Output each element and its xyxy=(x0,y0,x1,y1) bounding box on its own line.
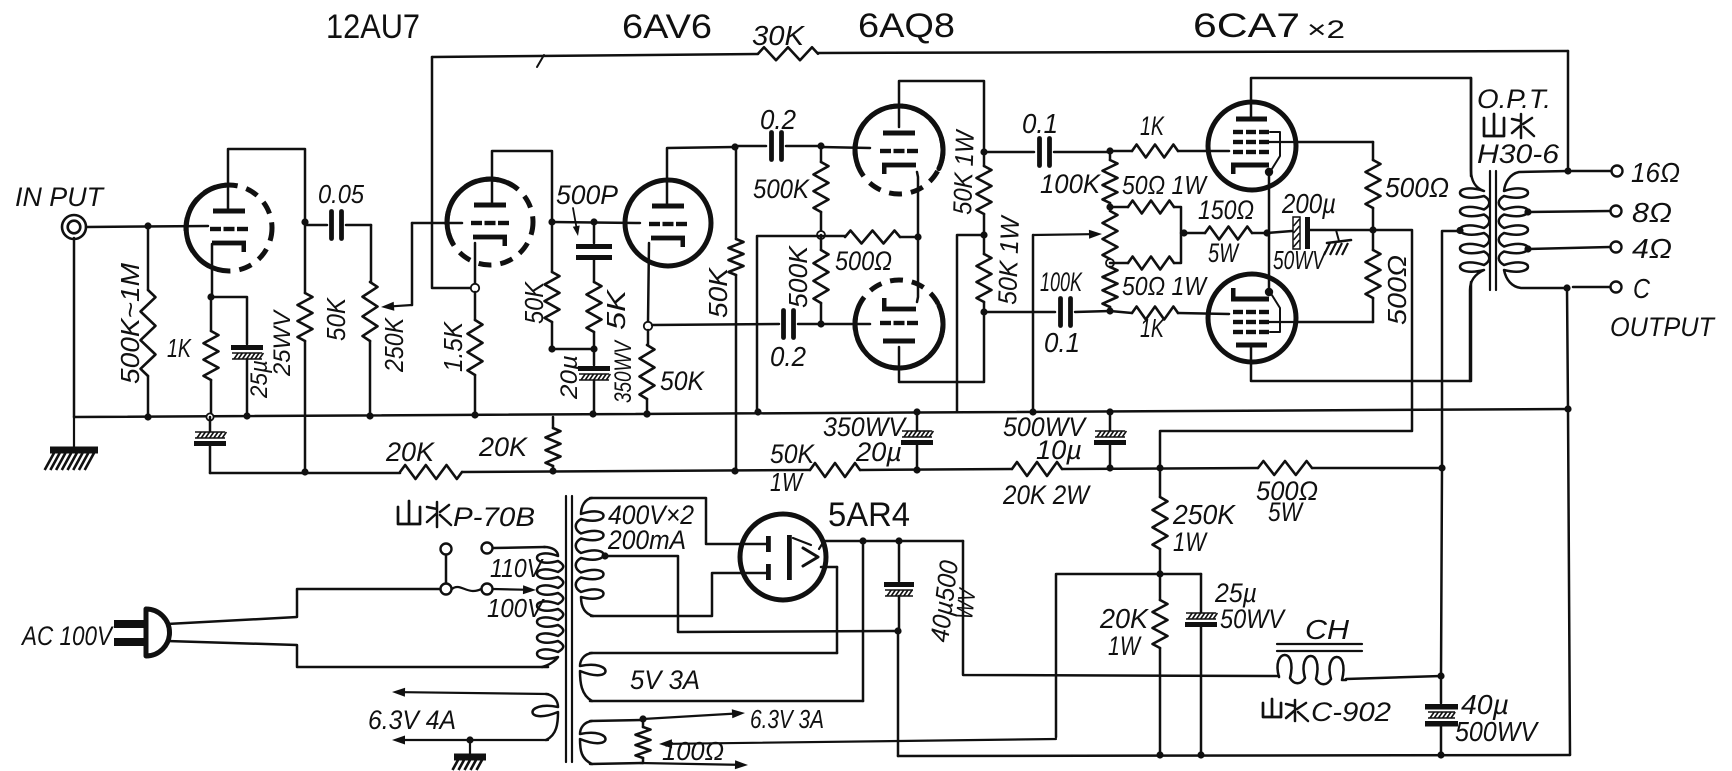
resistor 1.5K xyxy=(468,292,483,415)
label 5V3A xyxy=(630,665,700,695)
resistor 150Ohm 5W xyxy=(1184,227,1267,240)
label 0.05 xyxy=(318,179,364,209)
label 50WV xyxy=(1273,245,1327,275)
PT HT coil xyxy=(576,498,604,616)
svg-text:50WV: 50WV xyxy=(1220,604,1287,634)
svg-text:12AU7: 12AU7 xyxy=(326,8,420,46)
wire V1b cathode xyxy=(474,243,477,284)
svg-text:1W: 1W xyxy=(1173,527,1208,557)
label 350WV xyxy=(610,339,637,403)
resistor 50K cathode V2 xyxy=(640,330,655,413)
label 400Vx2 xyxy=(608,500,694,530)
junction V4 plate node xyxy=(980,308,987,315)
label 500K~1M xyxy=(115,263,145,384)
svg-text:20K: 20K xyxy=(1099,603,1149,634)
label 30K xyxy=(752,20,805,51)
svg-text:CH: CH xyxy=(1305,614,1350,645)
wire V3 plate xyxy=(899,81,984,152)
resistor 500K~1M xyxy=(141,226,156,417)
junction rail 50Kdrop xyxy=(731,467,738,474)
wire 6.3V3A arrow xyxy=(643,709,745,719)
junction V1a plate node xyxy=(301,218,308,225)
wire 5AR4 fil2 xyxy=(821,567,837,653)
resistor 50Ohm 1W lower xyxy=(1110,233,1181,270)
svg-text:100K: 100K xyxy=(1040,267,1083,297)
label H30-6 xyxy=(1477,139,1560,169)
label 500K upper xyxy=(753,174,810,204)
resistor 100K upper xyxy=(1103,151,1118,207)
resistor 100Ohm xyxy=(636,719,651,763)
label 5K xyxy=(601,288,631,330)
svg-text:350WV: 350WV xyxy=(610,339,637,403)
label 0.2 lower xyxy=(770,341,806,372)
wire 25u to bus xyxy=(246,359,249,416)
label 10u psu xyxy=(1036,435,1082,465)
svg-text:500K~1M: 500K~1M xyxy=(115,263,145,384)
ground main xyxy=(45,417,98,470)
label 40u500WV xyxy=(924,558,982,644)
label 0.1 upper xyxy=(1022,108,1058,139)
label CH xyxy=(1305,614,1350,645)
label 500P xyxy=(556,180,618,236)
label 200mA xyxy=(607,525,686,555)
label 50K 1W rail xyxy=(770,439,815,497)
tube V3 6AQ8 upper xyxy=(855,106,943,194)
svg-text:6.3V 4A: 6.3V 4A xyxy=(368,705,456,735)
wire V1a cathode xyxy=(211,244,214,297)
wire node to bus drop xyxy=(757,236,821,411)
junction rail 1110 xyxy=(1106,464,1113,471)
capacitor 20u 350WV xyxy=(578,349,610,413)
label 50K1W lower xyxy=(992,214,1025,305)
resistor 1K xyxy=(204,297,219,413)
svg-text:20K 2W: 20K 2W xyxy=(1002,480,1091,510)
wire HT top xyxy=(590,498,766,544)
resistor 50K 1W lower xyxy=(977,235,992,312)
wire AC upper xyxy=(167,589,440,624)
svg-text:100V: 100V xyxy=(487,593,545,623)
svg-text:10µ: 10µ xyxy=(1036,435,1082,465)
tube V1a 12AU7 xyxy=(186,185,272,271)
switch terminal 110V a xyxy=(441,544,452,555)
wire 50K-5K bottoms xyxy=(552,348,594,351)
label 500WV psu xyxy=(1003,412,1088,442)
potentiometer 250K xyxy=(363,282,378,416)
resistor 20K vert xyxy=(546,417,561,471)
wire B+ rail xyxy=(210,461,1442,479)
junction rail 305 xyxy=(301,468,308,475)
junction chain bottom xyxy=(1106,307,1113,314)
label 500Ohm5W xyxy=(1256,476,1318,527)
label 5W xyxy=(1208,238,1240,268)
svg-text:200µ: 200µ xyxy=(1281,188,1336,219)
capacitor 0.2 upper xyxy=(735,133,821,160)
junction C tap xyxy=(1563,284,1570,291)
svg-text:16Ω: 16Ω xyxy=(1631,157,1680,188)
svg-text:250K: 250K xyxy=(379,317,409,373)
junction btm 40u xyxy=(1437,751,1444,758)
junction bus 1.5K xyxy=(471,411,478,418)
svg-text:P-70B: P-70B xyxy=(453,502,535,532)
svg-text:C: C xyxy=(1633,273,1651,304)
svg-text:5W: 5W xyxy=(1208,238,1240,268)
resistor 1K lower xyxy=(1110,307,1229,320)
OPT primary CT xyxy=(1456,227,1463,234)
label OPT sansui kanji xyxy=(1484,114,1534,138)
label 110V xyxy=(490,553,544,583)
svg-text:×2: ×2 xyxy=(1307,16,1345,44)
ground at 200u xyxy=(1324,230,1351,255)
wire V5 cathode xyxy=(1268,172,1271,233)
capacitor 0.1 upper xyxy=(984,139,1110,166)
wire V2 plate xyxy=(667,147,735,206)
svg-text:1W: 1W xyxy=(1108,631,1142,661)
ground 6.3V4A xyxy=(453,740,487,770)
svg-text:500Ω: 500Ω xyxy=(1385,172,1449,203)
resistor 100K lower xyxy=(1103,267,1118,311)
wire V6 plate xyxy=(1251,282,1471,381)
wire V5 plate xyxy=(1251,78,1471,176)
resistor chain mid xyxy=(1103,211,1118,263)
wire V6 screen xyxy=(1296,298,1373,322)
junction 16ohm NFB xyxy=(1564,167,1571,174)
wire 5AR4 B+ xyxy=(819,541,963,549)
svg-text:250K: 250K xyxy=(1172,499,1236,530)
svg-text:1K: 1K xyxy=(167,333,192,363)
wire divider to 25u xyxy=(1160,574,1201,612)
resistor 50K plate load V1b xyxy=(545,222,560,349)
junction btm 20K1W xyxy=(1156,751,1163,758)
svg-text:6.3V 3A: 6.3V 3A xyxy=(750,704,824,734)
junction chain top xyxy=(1106,147,1113,154)
wire V3 cathode xyxy=(917,172,918,237)
junction bridge xyxy=(1180,229,1187,236)
wire grid V1b xyxy=(412,222,462,225)
choke CH core xyxy=(1277,644,1362,651)
label 350WV psu xyxy=(823,412,908,442)
junction bus 25u xyxy=(243,412,250,419)
label 50K1W upper xyxy=(947,128,980,215)
svg-text:500P: 500P xyxy=(556,180,618,210)
label 4ohm xyxy=(1632,233,1672,264)
junction 5K bottom xyxy=(590,345,597,352)
label 1K upper xyxy=(1140,111,1165,141)
svg-text:150Ω: 150Ω xyxy=(1198,195,1254,225)
svg-text:0.1: 0.1 xyxy=(1022,108,1058,139)
resistor 500Ohm screen lower xyxy=(1366,230,1381,298)
capacitor 500P xyxy=(576,222,612,282)
label 200u xyxy=(1281,188,1336,219)
node V1b cathode xyxy=(471,284,479,292)
label 16ohm xyxy=(1631,157,1680,188)
label 8ohm xyxy=(1632,197,1672,228)
svg-text:20µ: 20µ xyxy=(855,437,902,467)
label 20K2W xyxy=(1002,480,1091,510)
input jack J1 xyxy=(62,215,86,239)
label 50Ohm1W upper xyxy=(1122,170,1208,200)
label OUTPUT xyxy=(1610,312,1716,342)
resistor 20K 1W xyxy=(1153,574,1168,755)
tube V1b 12AU7 xyxy=(447,179,533,265)
wire 6.3V4A lower arrow xyxy=(392,736,548,745)
switch terminal 100V b xyxy=(482,584,493,595)
junction choke out xyxy=(1437,672,1444,679)
label 6.3V3A xyxy=(750,704,824,734)
label C xyxy=(1633,273,1651,304)
junction 500P node xyxy=(590,218,597,225)
junction 6CA7 cathodes xyxy=(1263,229,1270,236)
svg-text:IN PUT: IN PUT xyxy=(15,182,105,212)
junction lower 0.2 node xyxy=(817,320,824,327)
svg-text:25µ: 25µ xyxy=(246,360,273,399)
junction drop-bus xyxy=(754,408,761,415)
svg-text:5V 3A: 5V 3A xyxy=(630,665,700,695)
wire HT CT xyxy=(604,556,898,632)
label 50K V1a xyxy=(321,296,351,341)
svg-text:1W: 1W xyxy=(770,467,804,497)
capacitor 0.05 xyxy=(305,212,371,239)
junction rail 250K xyxy=(1156,464,1163,471)
svg-text:50Ω 1W: 50Ω 1W xyxy=(1122,170,1208,200)
capacitor 20u 350WV psu xyxy=(901,412,933,470)
label 50K V2k xyxy=(660,366,705,396)
label 100K lower xyxy=(1040,267,1083,297)
wire V5 screen xyxy=(1296,142,1373,160)
svg-text:500WV: 500WV xyxy=(1455,716,1539,747)
junction chain n2 xyxy=(1106,203,1113,210)
label 5AR4 xyxy=(828,496,910,534)
junction rail 20K xyxy=(549,467,556,474)
wire 16ohm xyxy=(1572,170,1611,173)
terminal 4ohm xyxy=(1611,242,1622,253)
switch link xyxy=(445,555,448,583)
resistor 1K upper xyxy=(1110,145,1229,158)
wire mid to bus xyxy=(957,235,984,411)
label 1.5K xyxy=(438,320,468,372)
label 25u xyxy=(246,360,273,399)
junction 100ohm top xyxy=(639,715,646,722)
wire C ground drop xyxy=(1567,288,1570,755)
svg-text:50WV: 50WV xyxy=(1273,245,1327,275)
junction bus 20u xyxy=(589,410,596,417)
label C-902 kanji xyxy=(1263,699,1308,721)
label P-70B xyxy=(453,502,535,532)
capacitor 0.2 lower xyxy=(784,311,822,338)
junction bus 500K1M xyxy=(144,413,151,420)
wire cathode to cap xyxy=(211,297,247,344)
resistor 500K lower xyxy=(814,235,829,324)
tube V5 6CA7 upper xyxy=(1208,102,1296,190)
label 500Ohm cath xyxy=(835,246,892,276)
wire V2 cathode xyxy=(648,243,649,322)
label 100K upper xyxy=(1040,169,1101,199)
capacitor 25u 50WV xyxy=(1185,613,1217,755)
svg-text:C-902: C-902 xyxy=(1311,697,1391,727)
junction rail 917 xyxy=(913,466,920,473)
wire 0.05 to pot xyxy=(370,225,373,282)
junction CT-rail xyxy=(1438,464,1445,471)
capacitor 40u 500WV psu xyxy=(884,541,914,631)
wire 110V to coil xyxy=(493,547,545,548)
wire 100V tap xyxy=(493,585,536,594)
label AC100V xyxy=(20,621,114,651)
junction V2 plate node xyxy=(731,143,738,150)
junction 0.2-500K xyxy=(817,142,824,149)
junction bus 250K xyxy=(366,412,373,419)
wire C xyxy=(1573,286,1610,289)
tube V6 6CA7 lower xyxy=(1208,274,1296,362)
junction HT CT xyxy=(601,552,608,559)
node screens xyxy=(1369,226,1376,233)
junction V3 plate node xyxy=(980,148,987,155)
svg-text:500Ω: 500Ω xyxy=(835,246,892,276)
svg-text:H30-6: H30-6 xyxy=(1477,139,1560,169)
wire input to grid xyxy=(86,226,208,227)
junction 50K V2k bottom xyxy=(643,410,650,417)
label 150Ohm xyxy=(1198,195,1254,225)
label 6AV6 xyxy=(622,8,712,46)
svg-text:1K: 1K xyxy=(1140,111,1165,141)
svg-text:200mA: 200mA xyxy=(607,525,686,555)
svg-text:50K 1W: 50K 1W xyxy=(992,214,1025,305)
junction 50K1W mid xyxy=(980,231,987,238)
label 20K h xyxy=(385,437,435,467)
svg-text:50K: 50K xyxy=(660,366,705,396)
tube V7 5AR4 xyxy=(740,514,826,600)
svg-text:100Ω: 100Ω xyxy=(662,736,724,766)
svg-text:50K: 50K xyxy=(519,280,549,324)
label 40u out xyxy=(1461,689,1509,720)
resistor 50K drop xyxy=(729,147,744,470)
wire HT bottom xyxy=(591,573,766,616)
svg-text:6AQ8: 6AQ8 xyxy=(858,7,955,45)
svg-text:0.2: 0.2 xyxy=(760,104,796,135)
wire cathode-0.2 xyxy=(652,324,779,325)
svg-text:50K: 50K xyxy=(321,296,351,341)
junction 6.3V4A gnd xyxy=(466,736,473,743)
label 25WV xyxy=(269,309,296,377)
label 500Ohm low xyxy=(1382,255,1412,325)
svg-text:20µ: 20µ xyxy=(556,355,583,400)
node bus 1K xyxy=(206,413,213,420)
junction bus 1110 xyxy=(1106,408,1113,415)
AC plug xyxy=(114,609,170,656)
svg-text:50K: 50K xyxy=(703,266,733,318)
wire coupling node xyxy=(552,222,640,223)
capacitor 40u 500WV out xyxy=(1425,676,1458,755)
label 6CA7 x2 xyxy=(1193,7,1345,45)
svg-text:4Ω: 4Ω xyxy=(1632,233,1672,264)
junction bus end xyxy=(1564,405,1571,412)
node 500K mid xyxy=(817,231,825,239)
arrow 250K wiper xyxy=(381,223,412,311)
svg-text:20K: 20K xyxy=(478,432,528,462)
junction V1b plate node xyxy=(548,218,555,225)
resistor 500Ohm cath xyxy=(821,231,918,244)
svg-text:50K: 50K xyxy=(770,439,815,469)
wire V4 plate xyxy=(899,312,984,382)
wire CT to bottom rail xyxy=(897,631,900,756)
wire V1b plate xyxy=(492,151,552,222)
svg-text:500K: 500K xyxy=(783,244,813,308)
OPT core xyxy=(1490,171,1496,290)
svg-text:30K: 30K xyxy=(752,20,805,51)
svg-text:500K: 500K xyxy=(753,174,810,204)
junction 5V-B+ xyxy=(859,537,866,544)
resistor 500Ohm screen upper xyxy=(1366,160,1381,230)
wire CT rail down xyxy=(1441,468,1442,676)
junction chain-bus xyxy=(1029,408,1036,415)
junction cathode node xyxy=(207,293,214,300)
svg-text:110V: 110V xyxy=(490,553,544,583)
junction divider xyxy=(1156,570,1163,577)
capacitor bus-rail xyxy=(194,417,226,473)
junction cathodes 6AQ8 xyxy=(914,233,921,240)
switch terminal 100V a xyxy=(441,584,452,595)
wire V3 grid xyxy=(821,147,870,148)
tap 4ohm xyxy=(1524,245,1610,252)
capacitor 10u 500WV xyxy=(1094,412,1126,468)
wire 6.3V3A lower arrow xyxy=(640,760,748,769)
label 20K v xyxy=(478,432,528,462)
switch terminal 110V b xyxy=(482,543,493,554)
wire B+ to choke xyxy=(963,541,1279,676)
wire heater bias xyxy=(659,574,1160,748)
label INPUT xyxy=(15,182,105,212)
svg-text:25WV: 25WV xyxy=(269,309,296,377)
resistor 250K 1W xyxy=(1153,468,1168,574)
junction 50K bottom xyxy=(548,345,555,352)
label 1K xyxy=(167,333,192,363)
svg-text:6AV6: 6AV6 xyxy=(622,8,712,46)
PT core xyxy=(566,496,572,762)
label 25u50WV xyxy=(1214,578,1287,634)
label 100Ohm xyxy=(662,736,724,766)
wire screens to divider xyxy=(1160,230,1412,467)
junction btm 25u xyxy=(1197,751,1204,758)
switch blade xyxy=(452,587,481,591)
label P-70B kanji xyxy=(398,501,451,527)
resistor 50Ohm 1W upper xyxy=(1110,201,1181,234)
winding 6.3V3A xyxy=(580,720,643,764)
capacitor 0.1 lower xyxy=(984,299,1110,326)
capacitor 200u 50WV xyxy=(1267,217,1371,249)
label 500Ohm up xyxy=(1385,172,1449,203)
label C-902 xyxy=(1311,697,1391,727)
junction Bplus-40u xyxy=(895,537,902,544)
OPT primary coil xyxy=(1460,78,1489,381)
resistor 5K xyxy=(587,282,602,349)
svg-text:20K: 20K xyxy=(385,437,435,467)
resistor 50K 1W upper xyxy=(977,152,992,235)
wire V6 cathode xyxy=(1268,233,1271,292)
label 20K1W xyxy=(1099,603,1149,661)
label 50Ohm1W lower xyxy=(1122,271,1208,301)
svg-text:WV: WV xyxy=(951,586,982,621)
svg-text:50K 1W: 50K 1W xyxy=(947,128,980,215)
wire V1a plate xyxy=(228,149,305,222)
resistor 30K xyxy=(758,47,818,60)
label 500WV out xyxy=(1455,716,1539,747)
svg-text:O.P.T.: O.P.T. xyxy=(1477,84,1551,114)
winding 5V3A xyxy=(580,653,863,701)
terminal 8ohm xyxy=(1611,206,1622,217)
junction bus 917 xyxy=(913,408,920,415)
wire jack ground xyxy=(73,238,76,417)
svg-text:6CA7: 6CA7 xyxy=(1193,7,1300,45)
label 500K lower xyxy=(783,244,813,308)
wire V4 cathode xyxy=(917,237,918,302)
